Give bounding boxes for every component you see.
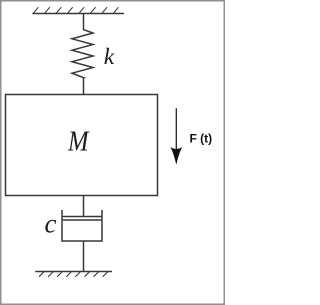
svg-text:c: c (45, 209, 57, 239)
svg-text:F (t): F (t) (190, 132, 213, 146)
svg-text:k: k (104, 44, 115, 70)
svg-text:M: M (67, 127, 90, 158)
